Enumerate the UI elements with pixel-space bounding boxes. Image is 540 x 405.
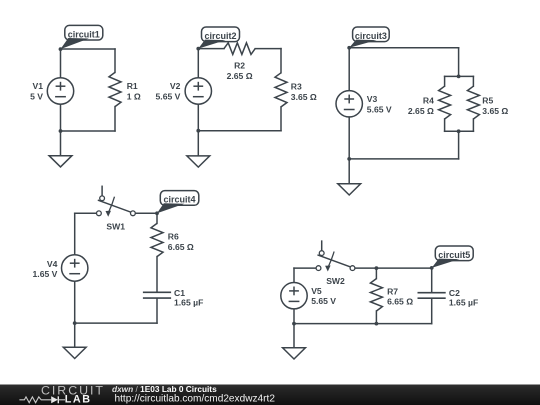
svg-text:R6: R6 [168, 232, 179, 242]
ground (circuit4) [63, 347, 86, 358]
junction (circuit3 bottom node) [347, 157, 351, 161]
junction (circuit4 bottom node) [73, 321, 77, 325]
logo diode [51, 396, 58, 403]
wire (C1 bottom lead) [156, 298, 158, 323]
footer bar [0, 385, 540, 405]
switch SW2 [316, 241, 355, 271]
wire (circuit2 top-left) [198, 48, 224, 50]
svg-text:C2: C2 [449, 288, 460, 298]
ground (circuit1) [49, 156, 72, 167]
wire (circuit5 ground stub) [293, 324, 295, 348]
svg-text:LAB: LAB [65, 394, 92, 405]
label bubble circuit4 [155, 191, 199, 216]
wire (R7 bottom lead) [375, 311, 377, 324]
wire (SW2 to corner) [294, 267, 316, 269]
capacitor C1 [143, 292, 171, 298]
wire (circuit4 bottom rail) [75, 322, 157, 324]
ground (circuit3) [338, 184, 361, 195]
voltage source V4 [61, 255, 87, 281]
label bubble circuit3 [347, 27, 389, 50]
wire (parallel bottom bar) [445, 130, 474, 132]
junction (R7 top node) [375, 266, 379, 270]
svg-text:V3: V3 [367, 94, 378, 104]
switch SW1 [97, 186, 136, 216]
svg-text:R1: R1 [127, 81, 138, 91]
svg-text:R5: R5 [482, 96, 493, 106]
ground (circuit5) [283, 348, 306, 359]
wire (circuit5 bottom rail) [294, 323, 432, 325]
wire (circuit1 bottom rail) [61, 130, 116, 132]
svg-text:1.65 V: 1.65 V [33, 269, 58, 279]
wire (C2 bottom lead) [431, 299, 433, 324]
voltage source V5 [281, 283, 307, 309]
junction (circuit1 bottom node) [59, 129, 63, 133]
wire (SW2 to top rail) [355, 267, 432, 269]
wire (circuit2 ground stub) [197, 131, 199, 156]
wire (R3 bottom lead) [280, 107, 282, 131]
svg-text:circuit2: circuit2 [204, 31, 236, 41]
voltage source V3 [336, 91, 362, 117]
wire (corner to V4) [74, 213, 76, 254]
svg-text:5.65 V: 5.65 V [367, 105, 392, 115]
wire (circuit3 top rail) [349, 47, 458, 49]
svg-text:5 V: 5 V [30, 92, 43, 102]
wire (circuit4 ground stub) [74, 323, 76, 347]
svg-text:6.65 Ω: 6.65 Ω [387, 297, 413, 307]
svg-text:3.65 Ω: 3.65 Ω [482, 106, 508, 116]
wire (corner to V5) [293, 268, 295, 282]
wire (V4 bottom lead) [74, 282, 76, 324]
wire (V2 bottom lead) [197, 104, 199, 131]
svg-text:SW1: SW1 [106, 221, 125, 231]
wire (parallel top bar) [445, 75, 474, 77]
wire (circuit2 right drop) [280, 49, 282, 73]
wire (circuit1 ground stub) [60, 131, 62, 156]
svg-text:1.65 µF: 1.65 µF [174, 297, 203, 307]
voltage source V2 [185, 78, 211, 104]
resistor R6 [151, 223, 163, 256]
wire (V1 top lead) [60, 49, 62, 78]
svg-text:http://circuitlab.com/cmd2exdw: http://circuitlab.com/cmd2exdwz4rt2 [115, 394, 276, 405]
capacitor C2 [418, 293, 446, 299]
wire (V3 top lead) [348, 48, 350, 91]
wire (V1 bottom lead) [60, 104, 62, 131]
wire (V5 bottom lead) [293, 309, 295, 323]
svg-text:SW2: SW2 [326, 276, 345, 286]
svg-text:R3: R3 [291, 81, 302, 91]
resistor R4 [439, 86, 451, 119]
wire (C2 top lead) [431, 268, 433, 292]
resistor R5 [467, 86, 479, 119]
svg-text:R7: R7 [387, 286, 398, 296]
junction (parallel bottom node) [457, 129, 461, 133]
svg-text:1 Ω: 1 Ω [127, 91, 141, 101]
wire (SW1 to R6 node) [136, 212, 157, 214]
wire (V3 bottom lead) [348, 117, 350, 159]
wire (circuit3 ground stub) [348, 159, 350, 184]
svg-text:6.65 Ω: 6.65 Ω [168, 242, 194, 252]
wire (V2 top lead) [197, 49, 199, 78]
ground (circuit2) [187, 156, 210, 167]
wire (SW1 to corner) [75, 212, 97, 214]
svg-text:R2: R2 [234, 60, 245, 70]
resistor R2 [224, 43, 255, 55]
logo resistor zigzag [19, 397, 51, 403]
junction (circuit5 bottom-left node) [292, 322, 296, 326]
svg-text:V4: V4 [47, 259, 58, 269]
resistor R3 [275, 73, 287, 107]
junction (parallel top node) [457, 75, 461, 79]
svg-text:1.65 µF: 1.65 µF [449, 298, 478, 308]
wire (R5 bottom lead) [472, 119, 474, 131]
svg-text:R4: R4 [423, 96, 434, 106]
svg-text:5.65 V: 5.65 V [311, 296, 336, 306]
resistor R7 [370, 279, 382, 311]
svg-text:5.65 V: 5.65 V [156, 92, 181, 102]
wire (R4 bottom lead) [444, 119, 446, 131]
wire (circuit3 bottom rail) [349, 158, 458, 160]
svg-text:circuit4: circuit4 [164, 195, 196, 205]
svg-text:C1: C1 [174, 288, 185, 298]
svg-text:circuit1: circuit1 [68, 29, 100, 39]
wire (circuit3 right drop) [458, 48, 460, 77]
wire (circuit1 right bottom) [114, 107, 116, 131]
svg-text:circuit5: circuit5 [438, 250, 470, 260]
wire (R6 to C1) [156, 257, 158, 292]
wire (circuit2 bottom rail) [198, 130, 281, 132]
svg-text:2.65 Ω: 2.65 Ω [408, 106, 434, 116]
junction (circuit2 bottom node) [196, 129, 200, 133]
wire (circuit1 right drop) [114, 49, 116, 72]
svg-text:V5: V5 [311, 286, 322, 296]
svg-text:dxwn / 1E03 Lab 0 Circuits: dxwn / 1E03 Lab 0 Circuits [112, 384, 217, 394]
voltage source V1 [47, 78, 73, 104]
wire (R5 top lead) [472, 76, 474, 86]
wire (R4 top lead) [444, 76, 446, 86]
label bubble circuit5 [430, 246, 473, 270]
svg-text:V1: V1 [32, 81, 43, 91]
svg-text:circuit3: circuit3 [355, 31, 387, 41]
svg-text:3.65 Ω: 3.65 Ω [291, 92, 317, 102]
wire (circuit2 top-right) [255, 48, 281, 50]
wire (R6 top lead) [156, 213, 158, 223]
svg-text:2.65 Ω: 2.65 Ω [227, 71, 253, 81]
junction (R7 bottom node) [375, 322, 379, 326]
svg-text:V2: V2 [170, 81, 181, 91]
wire (circuit3 right bottom drop) [458, 131, 460, 159]
resistor R1 [109, 72, 121, 106]
wire (R7 top lead) [375, 268, 377, 279]
label bubble circuit1 [59, 25, 103, 51]
wire (circuit1 top rail) [61, 48, 116, 50]
label bubble circuit2 [196, 27, 239, 50]
